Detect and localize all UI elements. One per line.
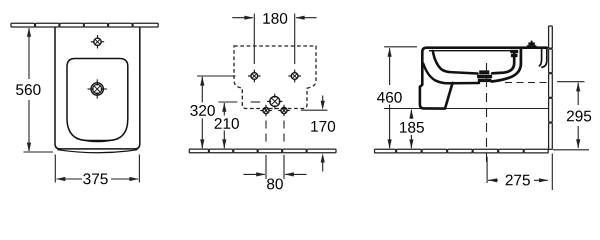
dimension 275 xyxy=(486,157,488,183)
dimension 170 xyxy=(301,109,328,111)
wall face extension below floor xyxy=(551,154,553,191)
dimension 80 xyxy=(265,155,267,179)
dimension 180 xyxy=(232,17,253,19)
drain fitting (sectioned, hatched) xyxy=(477,70,492,82)
dimension 320 xyxy=(197,75,236,77)
wall section (plan view) xyxy=(11,23,158,27)
drain pipe centrelines (rear) xyxy=(265,121,267,147)
inner bowl rim (plan) xyxy=(67,59,128,141)
dimension 210 xyxy=(218,101,237,103)
shell underside at front (side) xyxy=(423,64,479,84)
dimension 185 xyxy=(410,110,412,119)
dashed rear silhouette xyxy=(234,46,316,109)
tap hole section below deck (side) xyxy=(510,50,518,57)
floor section (rear view) xyxy=(189,149,336,153)
tap hole symbol (plan) xyxy=(88,79,107,98)
left drain fixing hole xyxy=(260,105,271,116)
dimension 560 xyxy=(24,151,54,153)
fixture hole mark (plan) xyxy=(91,35,104,48)
drain centreline (side) xyxy=(486,63,488,163)
wall section (side view) xyxy=(549,26,553,149)
bidet base edge (plan) xyxy=(57,150,137,153)
bidet outer outline (plan) xyxy=(55,27,140,149)
right fixing hole xyxy=(288,70,301,83)
dimension 460 xyxy=(384,46,417,48)
water inlet symbol (rear) xyxy=(267,94,283,110)
bowl bottom shadow arc (plan) xyxy=(76,138,119,141)
bidet outer profile (side) xyxy=(420,48,547,109)
bowl interior wall and bottom (side) xyxy=(433,51,478,74)
left fixing hole xyxy=(248,70,261,83)
right drain fixing hole xyxy=(278,105,289,116)
inner rim line (side) xyxy=(429,50,514,52)
outlet centreline (side) xyxy=(505,82,548,84)
dimension 375 xyxy=(54,155,56,183)
floor section (side view) xyxy=(375,149,549,153)
fixing bolt on deck (side) xyxy=(527,41,537,49)
skirt bottom edge / 185 extension line xyxy=(384,108,548,110)
mounting pocket at back (side) xyxy=(539,48,542,66)
floor line extension right of wall xyxy=(553,149,589,151)
dimension 295 xyxy=(557,81,585,83)
fixing hole centrelines xyxy=(253,14,255,65)
bowl rear wall (side) xyxy=(492,52,514,73)
